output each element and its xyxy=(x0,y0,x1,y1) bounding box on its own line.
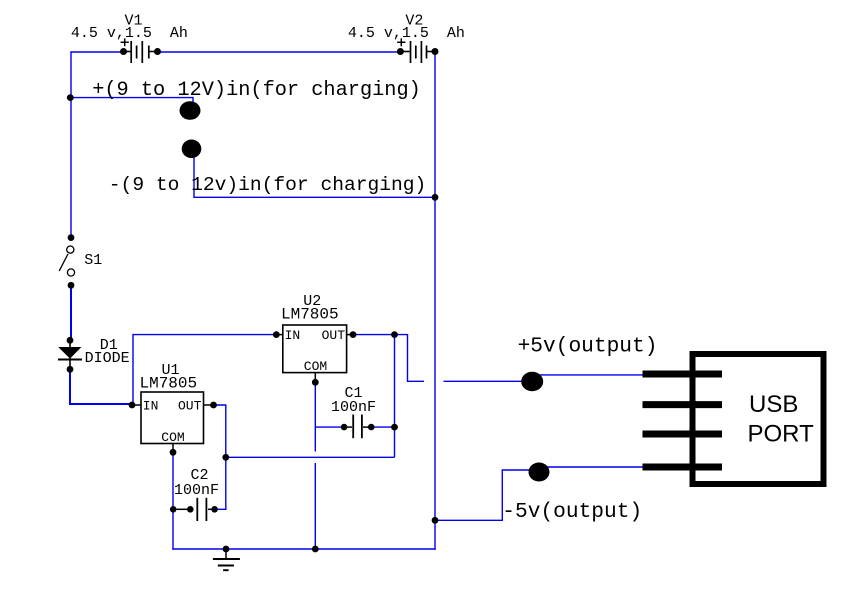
node: ground junction dot on bottom rail xyxy=(223,546,230,553)
ground xyxy=(213,549,240,570)
U2 pin COM stub and node xyxy=(314,373,316,380)
svg-text:100nF: 100nF xyxy=(331,399,376,416)
node: +input junction dot on left vertical xyxy=(67,94,74,101)
USB pin 3 xyxy=(643,431,723,438)
wire: diode D1 to U1 IN xyxy=(70,371,131,404)
svg-text:4.5 v,1.5 Ah: 4.5 v,1.5 Ah xyxy=(71,25,188,42)
wire: -input branch from terminal to main right vertical xyxy=(194,152,435,197)
wire: U2 OUT node vertical down through C1 right to output rail xyxy=(394,335,396,458)
capacitor C2 xyxy=(170,498,218,521)
U1 pin OUT stub and node xyxy=(204,404,213,406)
svg-text:USB: USB xyxy=(749,391,798,418)
node: -input junction dot on main right vertical xyxy=(432,194,439,201)
svg-text:IN: IN xyxy=(285,328,301,343)
wire: switch S1 to diode D1 xyxy=(70,287,72,338)
svg-text:LM7805: LM7805 xyxy=(140,374,198,392)
U2 pin IN stub and node xyxy=(277,334,283,336)
node: C1 right junction dot on U2 OUT vertical xyxy=(391,424,398,431)
wire: C1 right branch to U2 OUT vertical xyxy=(371,426,395,428)
op-amp U1 LM7805 regulator box xyxy=(141,392,204,444)
USB pin 2 xyxy=(643,401,723,408)
wire: U2 COM vertical lower part to bottom rail xyxy=(314,463,316,549)
wire: -5v branch from main vertical xyxy=(435,470,529,520)
wire: -5v terminal to USB pin 4 xyxy=(535,466,652,468)
wire: main right vertical from V2 down to bottom rail xyxy=(434,52,436,550)
wire: riser from U1 IN node up to U2 IN xyxy=(133,335,274,404)
terminal: -input big dot xyxy=(182,140,202,159)
svg-text:+5v(output): +5v(output) xyxy=(518,335,658,359)
battery V1 xyxy=(120,38,161,63)
node: U1 OUT rail junction dot xyxy=(222,454,229,461)
terminal: -5v output big dot xyxy=(529,463,550,482)
svg-text:+(9 to 12V)in(for charging): +(9 to 12V)in(for charging) xyxy=(92,79,421,102)
U1 pin COM stub and node xyxy=(172,444,174,451)
wire: C1 left branch from U2 COM line xyxy=(315,426,344,428)
svg-text:DIODE: DIODE xyxy=(85,350,130,367)
wire: output rail y457 between U1 OUT node and U2 OUT node xyxy=(226,456,395,458)
svg-text:OUT: OUT xyxy=(178,399,202,414)
svg-text:-5v(output): -5v(output) xyxy=(502,500,642,524)
node: -5v junction dot on main vertical xyxy=(432,517,439,524)
wire: U1 OUT down to output rail and to C2 right plate xyxy=(215,405,226,509)
U1 pin IN stub and node xyxy=(133,404,141,406)
node: U2 COM junction dot on bottom rail xyxy=(312,546,319,553)
USB pin 4 xyxy=(643,464,723,471)
wire: top-left vertical from top rail to switch S1 xyxy=(70,52,72,235)
wire: +input branch from left vertical to terminal xyxy=(70,98,193,104)
svg-text:4.5 v,1.5 Ah: 4.5 v,1.5 Ah xyxy=(348,25,465,42)
op-amp U2 LM7805 regulator box xyxy=(283,325,347,373)
svg-text:S1: S1 xyxy=(84,252,102,269)
svg-text:COM: COM xyxy=(304,359,327,374)
switch S1 xyxy=(59,234,74,288)
wire: top rail between V1 and V2 xyxy=(158,51,401,53)
svg-text:100nF: 100nF xyxy=(174,482,219,499)
capacitor C1 xyxy=(341,415,375,439)
svg-text:COM: COM xyxy=(161,430,184,445)
terminal: +5v output big dot xyxy=(521,372,543,391)
svg-text:OUT: OUT xyxy=(322,328,346,343)
node: U2 OUT junction dot xyxy=(391,331,398,338)
svg-text:LM7805: LM7805 xyxy=(281,306,339,324)
USB port box xyxy=(693,354,824,484)
svg-text:IN: IN xyxy=(143,399,159,414)
wire: U2 OUT to +5v L-bend xyxy=(356,335,424,382)
svg-text:PORT: PORT xyxy=(748,421,815,448)
diode D1 xyxy=(58,337,82,373)
wire: U2 COM vertical upper part with break at output rail xyxy=(314,385,316,452)
wire: bottom ground rail xyxy=(172,548,435,550)
svg-text:-(9 to 12v)in(for charging): -(9 to 12v)in(for charging) xyxy=(109,174,426,196)
wire: top rail left segment to V1 xyxy=(70,51,123,53)
wire: U1 COM vertical down to bottom rail xyxy=(172,455,174,550)
wire: +5v left segment after crossing gap xyxy=(444,380,530,382)
U2 pin OUT stub and node xyxy=(347,334,352,336)
USB pin 1 xyxy=(643,371,723,378)
battery V2 xyxy=(397,38,439,63)
wire: +5v terminal to USB pin 1 xyxy=(530,374,652,376)
terminal: +input big dot xyxy=(180,101,201,120)
